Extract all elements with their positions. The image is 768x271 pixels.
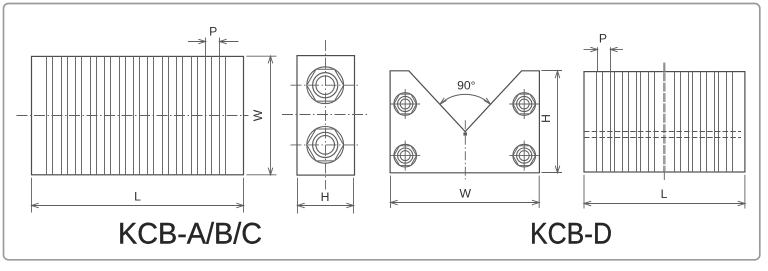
V-block outline (KCB-D) <box>390 71 539 173</box>
dimension P (front view pitch) <box>188 38 239 56</box>
svg-text:L: L <box>134 190 141 204</box>
svg-text:W: W <box>251 109 265 121</box>
svg-text:90°: 90° <box>457 79 476 93</box>
end view: lamination stripes <box>597 72 733 172</box>
V-block upper-left socket screw <box>394 93 417 116</box>
svg-text:P: P <box>209 25 217 39</box>
end view: lower hidden line <box>584 137 741 139</box>
front view: laminated block outline (KCB-A/B/C) <box>32 56 244 174</box>
90 degree dimension arc <box>440 94 491 104</box>
end view: upper hidden line <box>584 131 741 133</box>
svg-text:H: H <box>321 190 330 204</box>
svg-text:W: W <box>459 187 471 201</box>
end view: centre separator band <box>663 72 666 171</box>
front view: horizontal centre line <box>17 115 249 117</box>
dimension L (front view length) <box>32 178 244 213</box>
V-block vertical centre line <box>464 120 466 179</box>
V-block upper-left screw centre cross <box>390 89 420 119</box>
side view: vertical centre line <box>325 40 327 190</box>
side view: lower hex nut <box>307 126 344 163</box>
V-block lower-right socket screw <box>513 144 536 167</box>
dimension W (V-block width) <box>391 176 540 209</box>
svg-text:P: P <box>599 32 607 46</box>
front view: lamination stripes <box>47 56 226 174</box>
dimension W (front view width) <box>247 56 277 175</box>
V-block upper-right screw centre cross <box>509 89 539 119</box>
V-block lower-right screw centre cross <box>509 141 539 171</box>
V-block upper-right socket screw <box>513 93 536 116</box>
side view: upper nut horizontal centre line <box>291 84 360 86</box>
V apex marker <box>463 132 467 135</box>
dimension P (end view pitch) <box>584 47 624 71</box>
side view: upper hex nut <box>307 67 344 104</box>
dimension H (side view depth) <box>298 178 354 214</box>
end view: vertical centre line <box>663 63 665 72</box>
end view: laminated block outline (KCB-D) <box>584 72 745 172</box>
end view: centre separation band <box>661 72 668 171</box>
dimension L (end view length) <box>584 175 745 209</box>
svg-text:H: H <box>539 114 553 123</box>
svg-text:L: L <box>661 187 668 201</box>
side view: block outline <box>297 56 355 176</box>
V-block lower-left socket screw <box>394 144 417 167</box>
svg-text:KCB-A/B/C: KCB-A/B/C <box>118 218 262 251</box>
side view: lower nut horizontal centre line <box>291 144 360 146</box>
svg-text:KCB-D: KCB-D <box>530 218 612 251</box>
dimension H (V-block height) <box>542 71 563 173</box>
side view: mid horizontal centre line <box>282 114 368 116</box>
V-block lower-left screw centre cross <box>390 141 420 171</box>
